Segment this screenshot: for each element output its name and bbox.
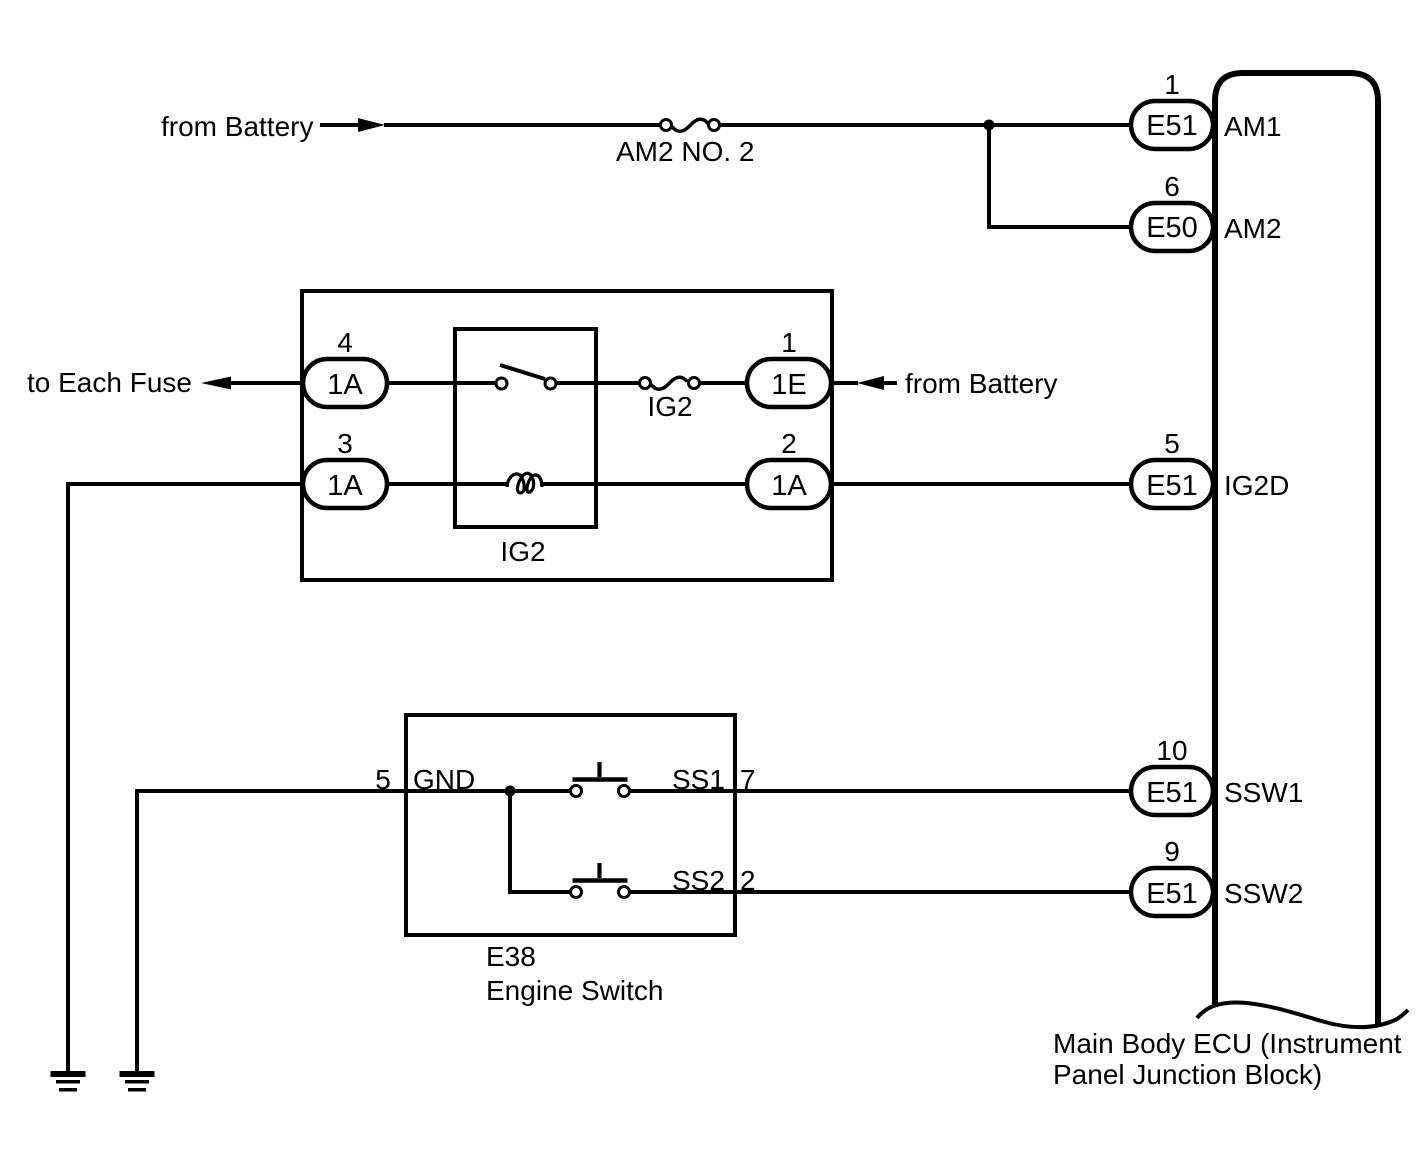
svg-text:E51: E51 [1146,110,1198,142]
svg-text:from Battery: from Battery [905,368,1057,399]
wire: fuse IG2 to pin 1E [700,381,747,385]
wire: GND terminal to junction and SS1 contact [406,789,570,793]
switch blade (open) [500,365,545,379]
wire: fuse to pin AM1 [720,123,1133,127]
wire: battery feed to fuse AM2 NO. 2 [384,123,660,127]
pin 1A (terminal 4) [303,359,387,407]
svg-text:Main Body ECU (Instrument: Main Body ECU (Instrument [1053,1028,1402,1059]
pin 1A (terminal 2) [747,460,831,508]
pin 1E (terminal 1) [747,359,831,407]
connector pin E51 (IG2D) [1131,460,1213,508]
svg-text:from Battery: from Battery [161,111,313,142]
svg-text:1: 1 [781,327,797,358]
push switch SS2 button actuator [573,878,628,883]
wire: junction down and right to pin AM2 [989,125,1133,227]
connector pin E51 (SSW1) [1131,767,1213,815]
wire: GND terminal left and down to right ground [137,791,406,1071]
push switch SS1 button actuator [573,777,628,782]
wire: SS2 to pin SSW2 [630,890,1133,894]
svg-text:10: 10 [1156,735,1187,766]
svg-text:3: 3 [337,428,353,459]
svg-text:to Each Fuse: to Each Fuse [27,367,192,398]
wire: pin 4 to switch contact [387,381,496,385]
svg-text:Engine Switch: Engine Switch [486,975,663,1006]
svg-text:1E: 1E [771,369,806,401]
svg-text:SSW2: SSW2 [1224,878,1303,909]
svg-text:IG2: IG2 [647,391,692,422]
coil winding (key-unlock warning coil) [507,473,542,493]
pin 1A (terminal 3) [303,460,387,508]
connector block: Main Body ECU (Instrument Panel Junction Block) outline [1215,73,1378,1025]
wire: junction down to SS2 contact [510,791,570,892]
wire: pin 1E battery feed with left arrow [831,381,858,385]
svg-text:6: 6 [1164,171,1180,202]
switch contact right [545,378,556,389]
connector pin E51 (AM1) [1131,101,1213,149]
svg-text:E51: E51 [1146,878,1198,910]
svg-text:1A: 1A [327,470,363,502]
svg-text:SSW1: SSW1 [1224,777,1303,808]
svg-text:1A: 1A [771,470,807,502]
svg-text:9: 9 [1164,836,1180,867]
ground symbol right [120,1071,155,1077]
junction: battery feed split node [984,120,995,131]
connector pin E51 (SSW2) [1131,868,1213,916]
svg-text:5: 5 [1164,428,1180,459]
ignition switch inner unit box [455,329,596,527]
svg-text:E51: E51 [1146,777,1198,809]
svg-text:Panel Junction Block): Panel Junction Block) [1053,1059,1322,1090]
wire: pin 3 to coil [387,482,508,486]
wire: SS1 to pin SSW1 [630,789,1133,793]
svg-text:IG2: IG2 [500,536,545,567]
wire: from Battery lead with right arrow [320,123,359,127]
fuse IG2 [640,378,651,389]
svg-text:2: 2 [781,428,797,459]
wire: pin 2 to pin IG2D [831,482,1133,486]
svg-text:E38: E38 [486,941,536,972]
svg-text:4: 4 [337,327,353,358]
wire: pin 3 left and down to left ground [68,484,303,1071]
wire: pin 4 out with left arrow to Each Fuse [201,377,231,390]
ground symbol left [51,1071,86,1077]
engine switch box E38 [406,715,735,935]
svg-text:E51: E51 [1146,470,1198,502]
switch contact left [496,378,507,389]
svg-text:E50: E50 [1146,212,1198,244]
fuse AM2 NO. 2 [661,120,672,131]
svg-text:1: 1 [1164,69,1180,100]
svg-text:AM2: AM2 [1224,213,1282,244]
wire: switch to fuse IG2 [556,381,639,385]
push switch SS2 contacts [571,887,582,898]
junction: GND split node [505,786,516,797]
ignition switch assembly outer box [302,291,832,580]
svg-text:1A: 1A [327,369,363,401]
svg-text:5: 5 [375,764,391,795]
connector pin E50 (AM2) [1131,203,1213,251]
wire: coil to pin 2 [540,482,747,486]
push switch SS1 contacts [571,786,582,797]
svg-text:IG2D: IG2D [1224,470,1289,501]
svg-text:AM1: AM1 [1224,111,1282,142]
wavy bottom break edge of ECU block [1197,1002,1408,1027]
svg-text:AM2 NO. 2: AM2 NO. 2 [616,136,754,167]
